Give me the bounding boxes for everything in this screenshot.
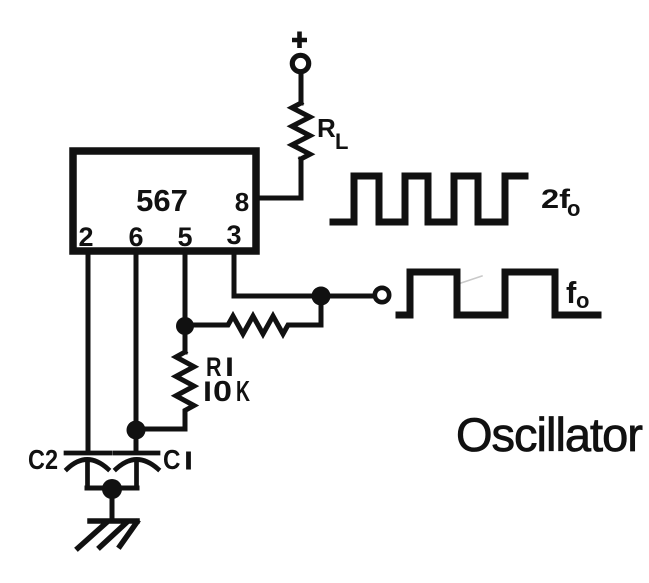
svg-text:R: R: [317, 113, 336, 143]
node + supply terminal circle: [292, 55, 308, 71]
svg-text:567: 567: [136, 183, 188, 218]
resistor RL: [292, 103, 310, 159]
waveform f0: [399, 272, 598, 315]
wire pin 3 to output circle: [234, 254, 373, 296]
wire faint scratch (scan artifact): [458, 276, 482, 284]
svg-text:0: 0: [213, 376, 232, 408]
resistor R1: [145, 352, 194, 429]
svg-text:3: 3: [226, 220, 241, 250]
wire pin 2: [86, 254, 91, 451]
wire to ground: [110, 489, 115, 519]
node junction dot ground: [102, 479, 122, 499]
node junction dot pin5/resistor: [176, 317, 194, 335]
label C1: [163, 444, 189, 475]
wire RL bottom to pin 8: [259, 159, 301, 198]
svg-text:K: K: [236, 376, 250, 408]
label 2f0: [541, 184, 580, 221]
svg-text:C: C: [163, 444, 181, 475]
svg-text:Oscillator: Oscillator: [456, 408, 642, 461]
wire pin 5: [183, 254, 188, 352]
svg-text:2: 2: [78, 222, 93, 252]
wire capacitor bottoms join: [87, 486, 137, 491]
svg-text:L: L: [335, 129, 348, 154]
svg-text:6: 6: [128, 222, 143, 252]
node junction dot output: [312, 287, 331, 306]
resistor horizontal (unlabeled): [193, 304, 321, 334]
node + supply terminal plus sign: [292, 32, 307, 49]
label RL: [317, 113, 348, 154]
label 10K: [208, 376, 251, 408]
svg-text:5: 5: [177, 222, 192, 252]
ground: [78, 521, 137, 548]
capacitor C1: [115, 453, 158, 487]
waveform 2f0: [333, 176, 525, 222]
svg-text:C2: C2: [28, 444, 58, 475]
label R1: [206, 352, 230, 382]
capacitor C2: [66, 453, 110, 487]
node output terminal circle: [375, 288, 389, 302]
label f0: [566, 275, 589, 313]
svg-text:o: o: [576, 288, 589, 313]
svg-text:8: 8: [235, 187, 249, 217]
wire supply circle to RL: [299, 72, 304, 103]
wire pin 6: [134, 254, 139, 451]
svg-text:o: o: [567, 196, 580, 221]
node junction dot R1/pin6: [127, 421, 146, 440]
op-amp U1 567 IC box: [73, 151, 256, 251]
